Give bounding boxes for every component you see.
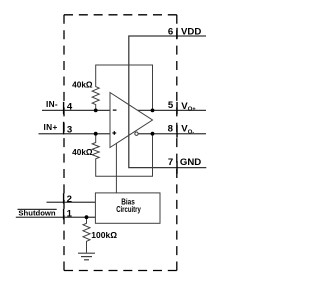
- svg-text:1: 1: [67, 209, 73, 220]
- svg-text:IN-: IN-: [46, 99, 58, 109]
- svg-text:VDD: VDD: [181, 27, 201, 38]
- svg-text:4: 4: [67, 101, 73, 112]
- svg-text:VO+: VO+: [181, 101, 196, 113]
- svg-text:VO-: VO-: [181, 123, 194, 135]
- svg-text:100kΩ: 100kΩ: [91, 230, 117, 240]
- svg-text:2: 2: [67, 194, 72, 205]
- svg-text:40kΩ: 40kΩ: [72, 147, 93, 157]
- svg-text:40kΩ: 40kΩ: [72, 80, 93, 90]
- svg-text:GND: GND: [180, 157, 201, 168]
- svg-text:Circuitry: Circuitry: [116, 204, 141, 214]
- svg-text:8: 8: [168, 124, 174, 135]
- svg-text:IN+: IN+: [44, 122, 58, 132]
- svg-text:7: 7: [168, 157, 173, 168]
- svg-text:3: 3: [67, 125, 72, 136]
- svg-text:Shutdown: Shutdown: [18, 209, 55, 218]
- svg-text:5: 5: [168, 100, 174, 111]
- svg-text:6: 6: [168, 27, 173, 38]
